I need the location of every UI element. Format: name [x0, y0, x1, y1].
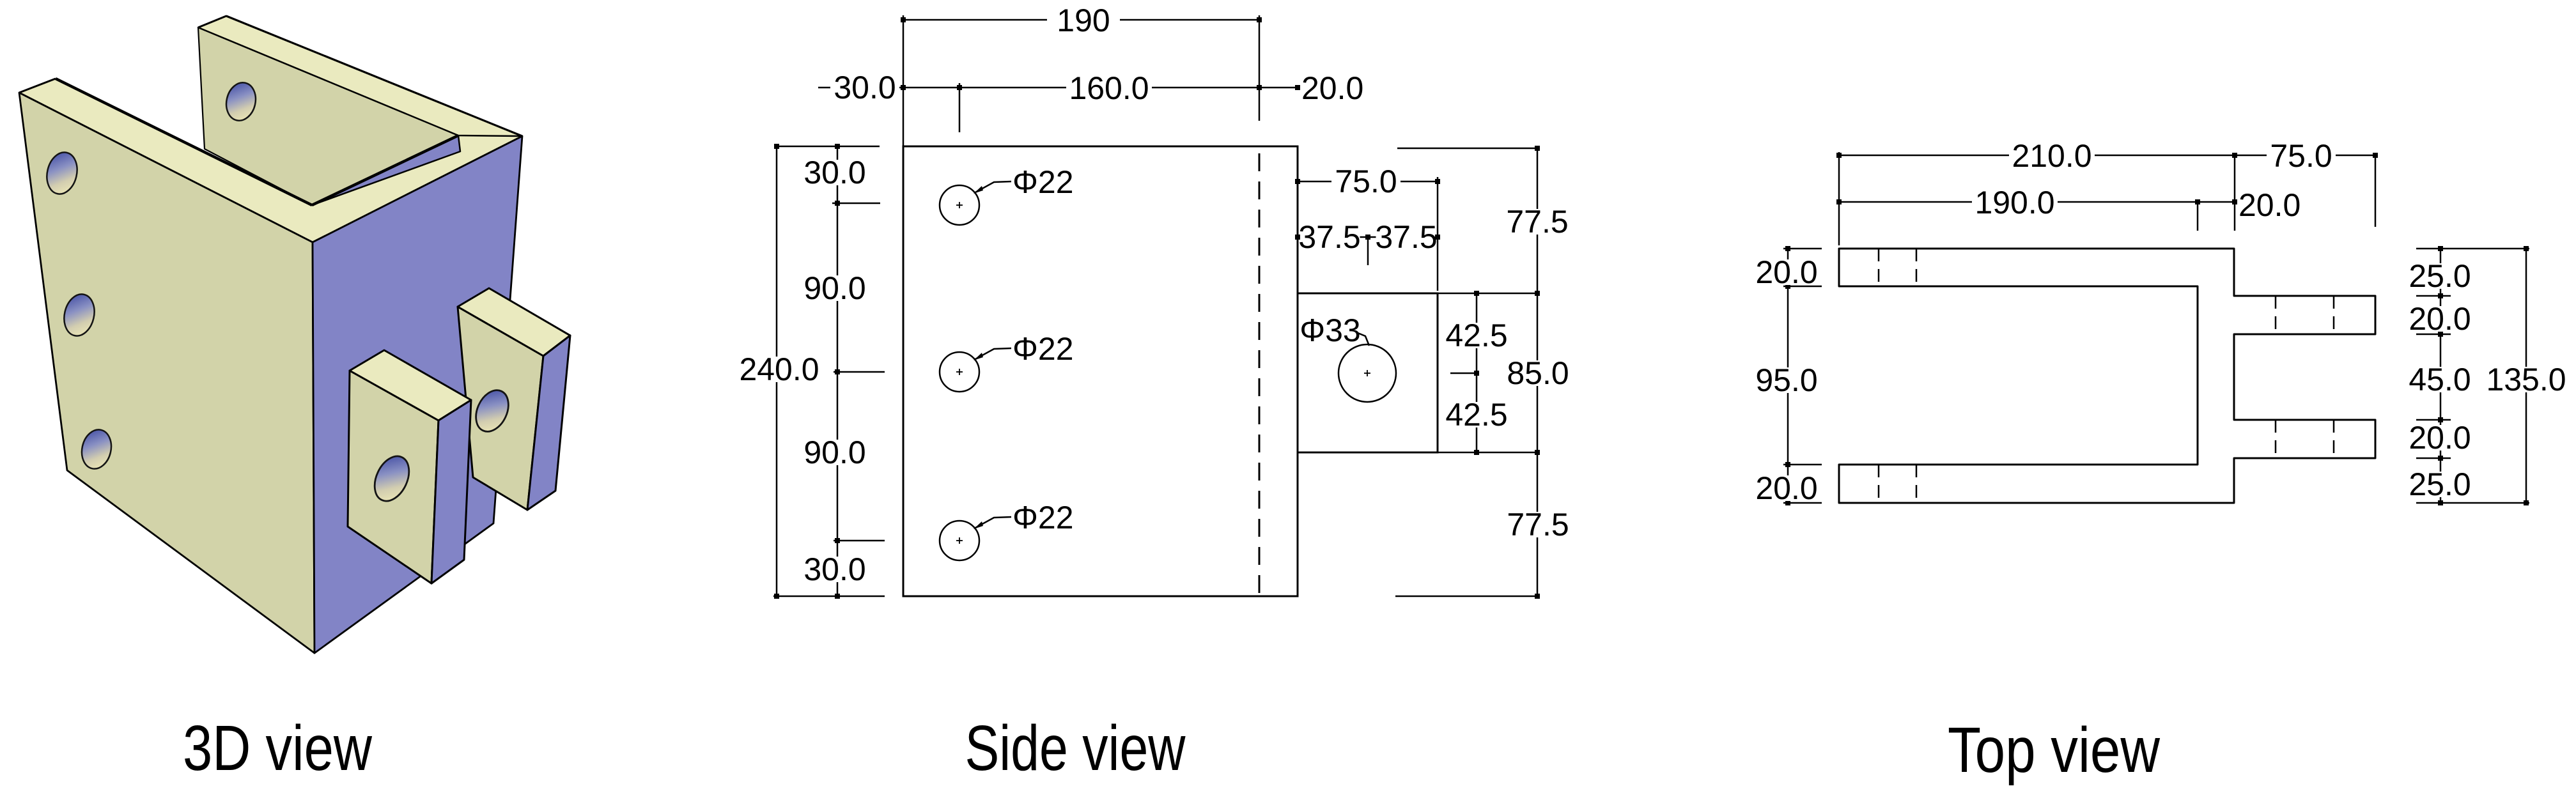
dim 90.0 b [800, 440, 869, 465]
dim 20.0 left top [1752, 259, 1821, 285]
label phi33 [1302, 318, 1358, 343]
3D far tab hole [470, 385, 515, 436]
dim 20.0 rt [2405, 306, 2474, 332]
dim 30.0 top [830, 75, 899, 100]
svg-text:3D view: 3D view [183, 712, 373, 784]
svg-text:Φ22: Φ22 [1013, 164, 1074, 200]
svg-text:77.5: 77.5 [1507, 507, 1569, 543]
top view hidden hole top tab [2333, 296, 2335, 334]
dim 135.0 [2483, 367, 2569, 392]
3D far tab top face [458, 288, 570, 356]
tick stub [2416, 458, 2451, 459]
tick stub [2416, 334, 2451, 335]
svg-text:85.0: 85.0 [1507, 355, 1569, 391]
dim 77.5 bottom [1503, 512, 1572, 537]
svg-text:20.0: 20.0 [1755, 254, 1817, 290]
3D back plate inner sliver b [312, 135, 460, 205]
dim 20.0 rb [2405, 425, 2474, 450]
top view hidden hole bottom tab [2333, 420, 2335, 458]
tick hole1 level [832, 203, 880, 204]
dim 25.0 top [2405, 263, 2474, 289]
side view hidden line [1259, 153, 1261, 596]
dim 210.0 [2009, 143, 2095, 169]
svg-text:75.0: 75.0 [1335, 164, 1397, 199]
3D ridge far-top [226, 16, 522, 136]
svg-text:30.0: 30.0 [803, 551, 865, 587]
tick stub [2416, 419, 2451, 421]
ext bottom [773, 596, 885, 597]
svg-text:210.0: 210.0 [2012, 138, 2091, 174]
dim line left chain [1787, 249, 1789, 503]
ext top [774, 146, 880, 148]
dim 190.0 [1972, 190, 2058, 215]
3D inner rim far [312, 135, 458, 205]
ext right top [2416, 248, 2529, 250]
dim 75.0 [1331, 169, 1401, 194]
svg-text:25.0: 25.0 [2409, 466, 2471, 502]
tick [1783, 248, 1822, 250]
hole 3 leader [974, 517, 1011, 528]
side view tab hole phi33 [1338, 344, 1396, 402]
3D far tab front face [458, 307, 543, 510]
ext line hole center [959, 83, 961, 132]
dim 20.0 left bottom [1752, 475, 1821, 501]
3D front hole top [43, 150, 81, 197]
top view hidden hole top tab [2275, 296, 2277, 334]
3D far plate hole [222, 80, 259, 124]
3D back plate top face [312, 135, 522, 242]
phi33 leader [1358, 333, 1369, 346]
3D near tab end face [431, 400, 471, 583]
ext bottom right [1395, 596, 1539, 597]
dim 45.0 [2405, 367, 2474, 392]
svg-text:42.5: 42.5 [1445, 397, 1507, 433]
svg-text:25.0: 25.0 [2409, 258, 2471, 294]
svg-text:42.5: 42.5 [1445, 318, 1507, 353]
svg-text:Side view: Side view [965, 712, 1186, 784]
3D back plate inner sliver [312, 135, 460, 205]
ext tab bottom [1438, 452, 1539, 454]
3D ridge front-top [19, 93, 313, 242]
tick hole2 level [834, 371, 885, 373]
ext line 190 right [1259, 15, 1261, 121]
svg-text:75.0: 75.0 [2270, 138, 2332, 174]
ext tab top [1438, 293, 1539, 295]
dim 42.5 top [1442, 323, 1511, 348]
3D far plate top face [198, 16, 522, 136]
dim 240.0 [736, 357, 822, 382]
svg-text:37.5: 37.5 [1298, 219, 1360, 255]
side view hole 2 [940, 352, 979, 392]
tick hole3 level [834, 540, 885, 542]
dim line 37.5x2 [1298, 236, 1438, 238]
top view outline [1839, 249, 2375, 503]
tick [1783, 464, 1822, 466]
dim line 42.5s [1476, 293, 1478, 452]
svg-text:30.0: 30.0 [834, 70, 896, 105]
dim 95.0 [1752, 367, 1821, 393]
hole 2 leader [974, 348, 1011, 360]
svg-text:95.0: 95.0 [1755, 362, 1817, 398]
ext 37.5 mid [1367, 237, 1369, 265]
ext 210 right [2234, 155, 2236, 231]
svg-text:37.5: 37.5 [1375, 219, 1437, 255]
svg-text:Top view: Top view [1948, 714, 2161, 786]
svg-text:Φ22: Φ22 [1013, 500, 1074, 535]
3D back plate outer face [313, 136, 522, 653]
3D far side plate inner face [198, 27, 458, 205]
tick stub [2416, 295, 2451, 297]
ext left [1838, 152, 1840, 245]
svg-text:135.0: 135.0 [2486, 362, 2566, 397]
dim 160.0 [1066, 75, 1152, 101]
ext line left [903, 15, 904, 146]
svg-text:30.0: 30.0 [803, 155, 865, 190]
dim 42.5 bottom [1442, 402, 1511, 427]
3D near tab front face [348, 371, 438, 583]
dim line 210/75 [1839, 155, 2375, 157]
ext 190 stub [2197, 202, 2199, 231]
3D far tab end face [527, 335, 570, 510]
3D front hole bottom [78, 427, 115, 472]
side view tab outline [1298, 293, 1438, 452]
side view hole 1 [940, 185, 979, 225]
top view hidden hole bottom leg [1878, 465, 1880, 503]
svg-text:77.5: 77.5 [1506, 204, 1568, 240]
3D edge far plate end [198, 16, 226, 27]
svg-text:45.0: 45.0 [2409, 362, 2471, 397]
tick circle level [1450, 373, 1478, 374]
dim line 135 [2526, 249, 2527, 503]
dim line 77.5/85 [1537, 148, 1539, 596]
ext tab right [1437, 177, 1439, 291]
side view hole 3 [940, 521, 979, 560]
svg-text:20.0: 20.0 [1301, 70, 1363, 106]
svg-text:190.0: 190.0 [1975, 185, 2054, 220]
3D near tab top face [350, 350, 471, 420]
dim 77.5 top [1503, 209, 1572, 235]
svg-text:Φ22: Φ22 [1013, 331, 1074, 367]
dim chain line [837, 146, 839, 596]
dim line 75 [1298, 181, 1438, 183]
3D near tab hole [368, 450, 416, 506]
dim line 240 [776, 146, 778, 596]
3D edge top-left end [19, 79, 56, 93]
svg-text:20.0: 20.0 [1755, 470, 1817, 506]
ext right bottom [2416, 502, 2529, 504]
svg-text:Φ33: Φ33 [1300, 312, 1361, 348]
tick [1783, 286, 1822, 288]
svg-text:20.0: 20.0 [2409, 301, 2471, 337]
dim 37.5 b [1376, 224, 1437, 250]
side view main plate outline [903, 146, 1298, 596]
dim 90.0 a [800, 275, 869, 301]
top view hidden hole bottom tab [2275, 420, 2277, 458]
svg-text:20.0: 20.0 [2238, 187, 2301, 223]
dim 30.0 left [800, 160, 869, 185]
ext 75 right [2375, 157, 2377, 227]
dim 75.0 top [2267, 143, 2336, 169]
top view hidden hole top leg [1878, 249, 1880, 286]
svg-text:90.0: 90.0 [803, 435, 865, 470]
ext top right [1397, 148, 1539, 150]
dim 37.5 a [1300, 224, 1360, 250]
svg-text:240.0: 240.0 [739, 351, 819, 387]
svg-text:160.0: 160.0 [1069, 70, 1149, 106]
3D near plate top face [19, 79, 313, 242]
dim 190 [1047, 8, 1120, 33]
top view hidden hole top leg [1916, 249, 1918, 286]
dim line 160/30/20 [818, 87, 1298, 89]
svg-text:190: 190 [1057, 3, 1110, 38]
dim 25.0 bottom [2405, 472, 2474, 497]
dim line right chain [2440, 249, 2442, 503]
tick [1783, 502, 1822, 504]
svg-text:20.0: 20.0 [2409, 420, 2471, 456]
3D front face [19, 93, 314, 653]
3D inner rim near [56, 79, 312, 205]
dim 85.0 [1503, 360, 1572, 386]
dim line 190/20 [1839, 201, 2235, 203]
top view hidden hole bottom leg [1916, 465, 1918, 503]
hole 1 leader [974, 181, 1011, 193]
3D ridge top-right [313, 136, 522, 242]
dim line 190 [903, 19, 1259, 21]
3D front hole middle [60, 291, 98, 339]
svg-text:90.0: 90.0 [803, 270, 865, 306]
dim 30.0 bottom [800, 557, 869, 582]
